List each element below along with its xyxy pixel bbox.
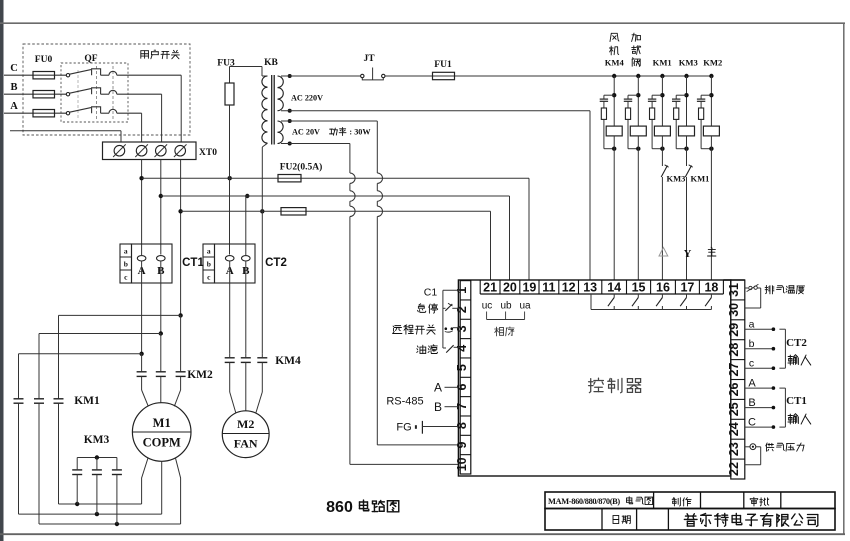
svg-text:2: 2 — [455, 306, 469, 313]
svg-text:XT0: XT0 — [199, 148, 217, 158]
svg-text:8: 8 — [455, 422, 469, 429]
svg-text:COPM: COPM — [143, 436, 181, 450]
svg-text:B: B — [10, 82, 17, 93]
svg-text:27: 27 — [727, 363, 741, 377]
svg-text:B: B — [434, 400, 442, 414]
svg-text:KM3: KM3 — [667, 174, 686, 184]
svg-text:29: 29 — [727, 323, 741, 337]
svg-text:A: A — [10, 101, 18, 112]
svg-text:Y: Y — [684, 249, 692, 260]
svg-text:C1: C1 — [424, 287, 438, 299]
svg-text:KM2: KM2 — [187, 369, 213, 381]
svg-text:12: 12 — [562, 280, 576, 294]
svg-text:CT2: CT2 — [265, 257, 287, 269]
svg-text:CT1: CT1 — [182, 257, 204, 269]
svg-text:uc: uc — [482, 301, 493, 312]
svg-text:30: 30 — [727, 303, 741, 317]
svg-text:KM4: KM4 — [275, 355, 301, 367]
svg-text:KM2: KM2 — [703, 57, 722, 67]
svg-text:FAN: FAN — [234, 437, 258, 451]
svg-text:28: 28 — [727, 343, 741, 357]
svg-text:25: 25 — [727, 402, 741, 416]
svg-text:FU1: FU1 — [434, 60, 452, 70]
svg-text:QF: QF — [84, 54, 97, 64]
svg-text:FU2(0.5A): FU2(0.5A) — [280, 162, 322, 173]
svg-text:: 30W: : 30W — [349, 128, 371, 137]
svg-text:KM1: KM1 — [74, 395, 100, 407]
svg-text:AC 20V: AC 20V — [292, 128, 320, 137]
svg-text:ub: ub — [500, 301, 512, 312]
svg-text:9: 9 — [455, 441, 469, 448]
svg-text:MAM-860/880/870(B): MAM-860/880/870(B) — [548, 497, 620, 506]
svg-text:M1: M1 — [153, 416, 171, 430]
svg-text:22: 22 — [727, 462, 741, 476]
svg-text:3: 3 — [455, 325, 469, 332]
svg-text:AC 220V: AC 220V — [291, 94, 323, 103]
svg-text:15: 15 — [632, 280, 646, 294]
svg-text:5: 5 — [455, 364, 469, 371]
svg-text:21: 21 — [483, 280, 497, 294]
svg-text:19: 19 — [522, 280, 536, 294]
svg-text:CT1: CT1 — [786, 395, 807, 407]
svg-text:KM4: KM4 — [605, 57, 625, 67]
svg-text:14: 14 — [607, 280, 621, 294]
svg-text:10: 10 — [455, 457, 469, 471]
svg-text:17: 17 — [680, 280, 694, 294]
svg-text:16: 16 — [656, 280, 670, 294]
svg-text:KM3: KM3 — [679, 57, 698, 67]
svg-text:18: 18 — [704, 280, 718, 294]
svg-text:13: 13 — [583, 280, 597, 294]
svg-text:KB: KB — [264, 58, 278, 68]
svg-text:31: 31 — [727, 283, 741, 297]
svg-text:RS-485: RS-485 — [386, 396, 423, 408]
svg-text:a: a — [207, 247, 211, 256]
svg-text:4: 4 — [455, 345, 469, 352]
svg-text:b: b — [124, 260, 128, 269]
svg-text:KM1: KM1 — [691, 174, 710, 184]
svg-text:860: 860 — [326, 499, 353, 516]
svg-text:A: A — [434, 381, 442, 395]
svg-text:FG: FG — [396, 422, 411, 434]
svg-text:KM3: KM3 — [84, 434, 110, 446]
svg-text:KM1: KM1 — [653, 57, 672, 67]
svg-text:23: 23 — [727, 442, 741, 456]
svg-text:C: C — [10, 63, 18, 74]
svg-text:20: 20 — [503, 280, 517, 294]
svg-text:24: 24 — [727, 422, 741, 436]
svg-text:JT: JT — [363, 54, 375, 64]
svg-text:26: 26 — [727, 382, 741, 396]
svg-text:M2: M2 — [237, 417, 254, 431]
svg-text:FU0: FU0 — [35, 55, 53, 65]
svg-text:b: b — [207, 260, 211, 269]
svg-text:a: a — [124, 247, 128, 256]
svg-text:CT2: CT2 — [786, 337, 807, 349]
svg-text:ua: ua — [519, 301, 531, 312]
svg-text:11: 11 — [542, 280, 555, 294]
